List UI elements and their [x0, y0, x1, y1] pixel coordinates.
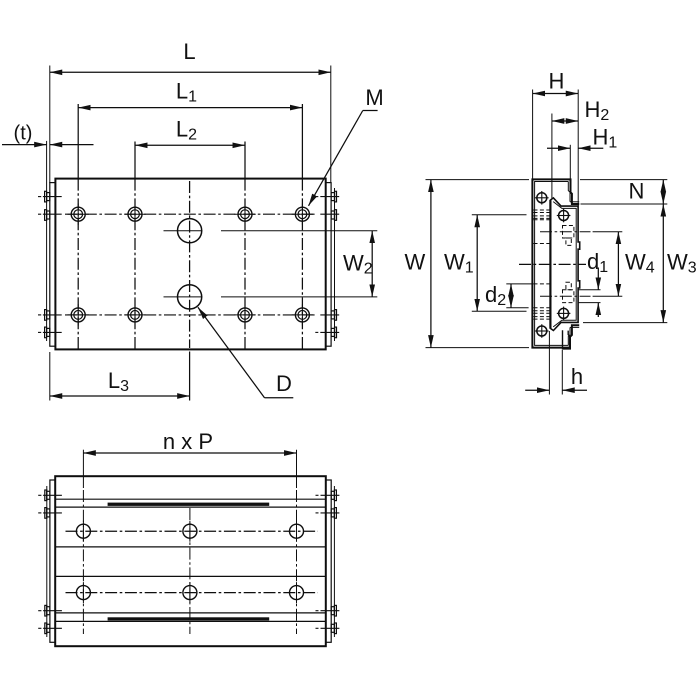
dimension W: [426, 179, 530, 181]
small hole B1: [71, 308, 85, 322]
table saddle inner outline: [535, 182, 580, 346]
dimension n x P: [83, 452, 296, 454]
column centerline x=135: [134, 142, 136, 179]
dimension L3: [49, 352, 51, 401]
table upper edge line: [55, 498, 326, 500]
W2 extension from big hole top: [221, 230, 377, 232]
svg-text:L3: L3: [108, 368, 129, 395]
hidden clearance hole d2 walls (top hole): [534, 219, 551, 221]
rail upper inner edge: [55, 546, 326, 548]
dimension H1: [569, 145, 571, 179]
end-plate screw 2 (top inner): [559, 211, 569, 221]
dimension W4: [617, 232, 619, 297]
small hole B3: [238, 308, 252, 322]
front left screw tab 4: [45, 623, 47, 634]
dimension W1: [472, 214, 527, 216]
big hole D bottom: [178, 285, 202, 309]
right end plate: [326, 183, 331, 347]
column centerline x=189.9: [189, 508, 191, 634]
column centerline x=302.4: [301, 104, 303, 179]
svg-text:W4: W4: [625, 250, 655, 277]
rail bottom edge line: [55, 612, 326, 614]
screw axis line left row1: [38, 197, 339, 333]
seal strip top (black bar): [108, 503, 270, 506]
dimension L1: [78, 107, 302, 109]
right screw tab 2: [335, 210, 337, 221]
small hole B2: [128, 308, 142, 322]
W2 extension from big hole bottom: [221, 296, 377, 298]
screw axis line right row4: [315, 331, 318, 333]
svg-text:n x P: n x P: [163, 429, 213, 454]
central axis x=189.6 (dash-dot, extends below for L3): [189, 181, 191, 348]
hidden rail counterbore hole top: [563, 226, 574, 303]
left end plate: [50, 183, 56, 347]
left end plate outer face line: [46, 188, 48, 341]
left cap outer face line: [46, 486, 48, 637]
rail left flank: [549, 200, 551, 329]
screw axis line left row4: [38, 331, 41, 333]
front left screw tab 2: [45, 508, 47, 519]
dimension H: [532, 90, 534, 180]
right cap outer face line: [333, 486, 335, 637]
left end cap: [50, 480, 55, 642]
hole row centerline bottom: [38, 314, 41, 316]
front right screw tab 4: [334, 623, 336, 634]
right end plate outer face line: [334, 188, 336, 341]
hole centerline bottom (W4 extension): [540, 295, 591, 297]
rail hole C1: [76, 521, 303, 603]
dimension h: [548, 331, 550, 395]
rail hole C6: [290, 586, 304, 600]
rail lower inner edge: [55, 575, 326, 577]
dimension W2: [371, 231, 373, 297]
right end cap: [326, 480, 331, 642]
front left screw tab 3: [45, 605, 47, 616]
dimension d2: [506, 283, 532, 285]
table plate outline: [55, 179, 325, 350]
svg-text:W2: W2: [343, 251, 373, 278]
svg-text:d1: d1: [587, 249, 608, 276]
svg-text:h: h: [571, 364, 583, 389]
svg-text:(t): (t): [14, 123, 33, 145]
front right screw tab 1: [334, 490, 336, 501]
small hole A4: [295, 207, 309, 221]
hole row centerline 2: [66, 592, 318, 594]
right screw tab 4: [335, 327, 337, 338]
dimension L: [49, 66, 51, 184]
hole centerline top (W4 extension): [540, 231, 591, 233]
dimension d1: [578, 289, 601, 291]
hole row centerline 1: [66, 530, 318, 532]
side view horizontal centerline: [519, 263, 586, 265]
svg-text:L2: L2: [176, 117, 197, 144]
front screw axis lines right: [316, 494, 319, 496]
svg-text:M: M: [365, 85, 383, 110]
screw axis line right row1: [315, 196, 318, 198]
end-plate screw 1 (top outer): [535, 191, 570, 338]
dimension N: [580, 179, 667, 181]
svg-text:W1: W1: [444, 250, 474, 277]
svg-text:D: D: [276, 371, 292, 396]
big hole D top: [178, 219, 202, 243]
right screw tab 3: [335, 310, 337, 321]
hidden tapped holes M in table wall, row bottom: [534, 310, 551, 312]
svg-text:d2: d2: [485, 282, 506, 309]
dimension (t): [46, 141, 48, 188]
small hole A3: [238, 207, 252, 221]
small hole A2: [128, 207, 142, 221]
table lower edge line: [55, 620, 326, 622]
left screw tab 3: [45, 310, 47, 321]
rail hole C5: [183, 586, 197, 600]
left screw tab 4: [45, 327, 47, 338]
column centerline x=83.4: [82, 450, 84, 488]
column centerline x=245: [244, 142, 246, 179]
small hole B4: [295, 308, 309, 322]
rail hole C3: [290, 524, 304, 538]
hidden tapped holes M in table wall, row top: [534, 210, 551, 319]
dimension H2: [551, 114, 553, 199]
svg-text:H: H: [549, 69, 565, 94]
dimension W3: [583, 322, 667, 324]
rail inner profile: [553, 202, 576, 327]
hole row centerline top (dash-dot through tabs and holes): [38, 214, 339, 315]
left screw tab 1: [45, 191, 337, 337]
left screw tab 2: [45, 210, 47, 221]
end-plate screw 4 (bottom outer): [537, 326, 547, 336]
svg-text:W3: W3: [667, 250, 697, 277]
front right screw tab 3: [334, 605, 336, 616]
rail top edge line: [55, 506, 326, 508]
seal strip bottom (black bar): [108, 617, 270, 620]
svg-text:L: L: [183, 39, 195, 64]
svg-text:H2: H2: [585, 97, 610, 124]
hidden rail counterbore hole bottom: [563, 290, 574, 303]
svg-text:H1: H1: [593, 125, 618, 152]
hidden clearance hole d2 walls (bottom hole): [534, 283, 551, 285]
front left screw tab 1: [45, 490, 337, 634]
end-plate screw 3 (bottom inner): [559, 308, 569, 318]
svg-text:W: W: [405, 250, 426, 275]
right screw tab 1: [335, 191, 337, 202]
small hole A1: [68, 204, 314, 326]
dimension L2: [135, 144, 245, 146]
svg-text:L1: L1: [176, 79, 197, 106]
rail hole C4: [76, 586, 90, 600]
column centerline x=296.5: [296, 450, 298, 488]
front right screw tab 2: [334, 508, 336, 519]
rail outer profile: [550, 198, 579, 331]
rail hole C2: [183, 524, 197, 538]
column centerline x=78.2 (dashed in plate, solid ext above to L1): [77, 104, 79, 179]
svg-text:N: N: [629, 179, 645, 204]
body outline: [55, 476, 326, 646]
front screw axis lines left: [38, 495, 339, 628]
table saddle outer outline: [532, 179, 579, 347]
rail bottom tongue: [563, 330, 571, 349]
